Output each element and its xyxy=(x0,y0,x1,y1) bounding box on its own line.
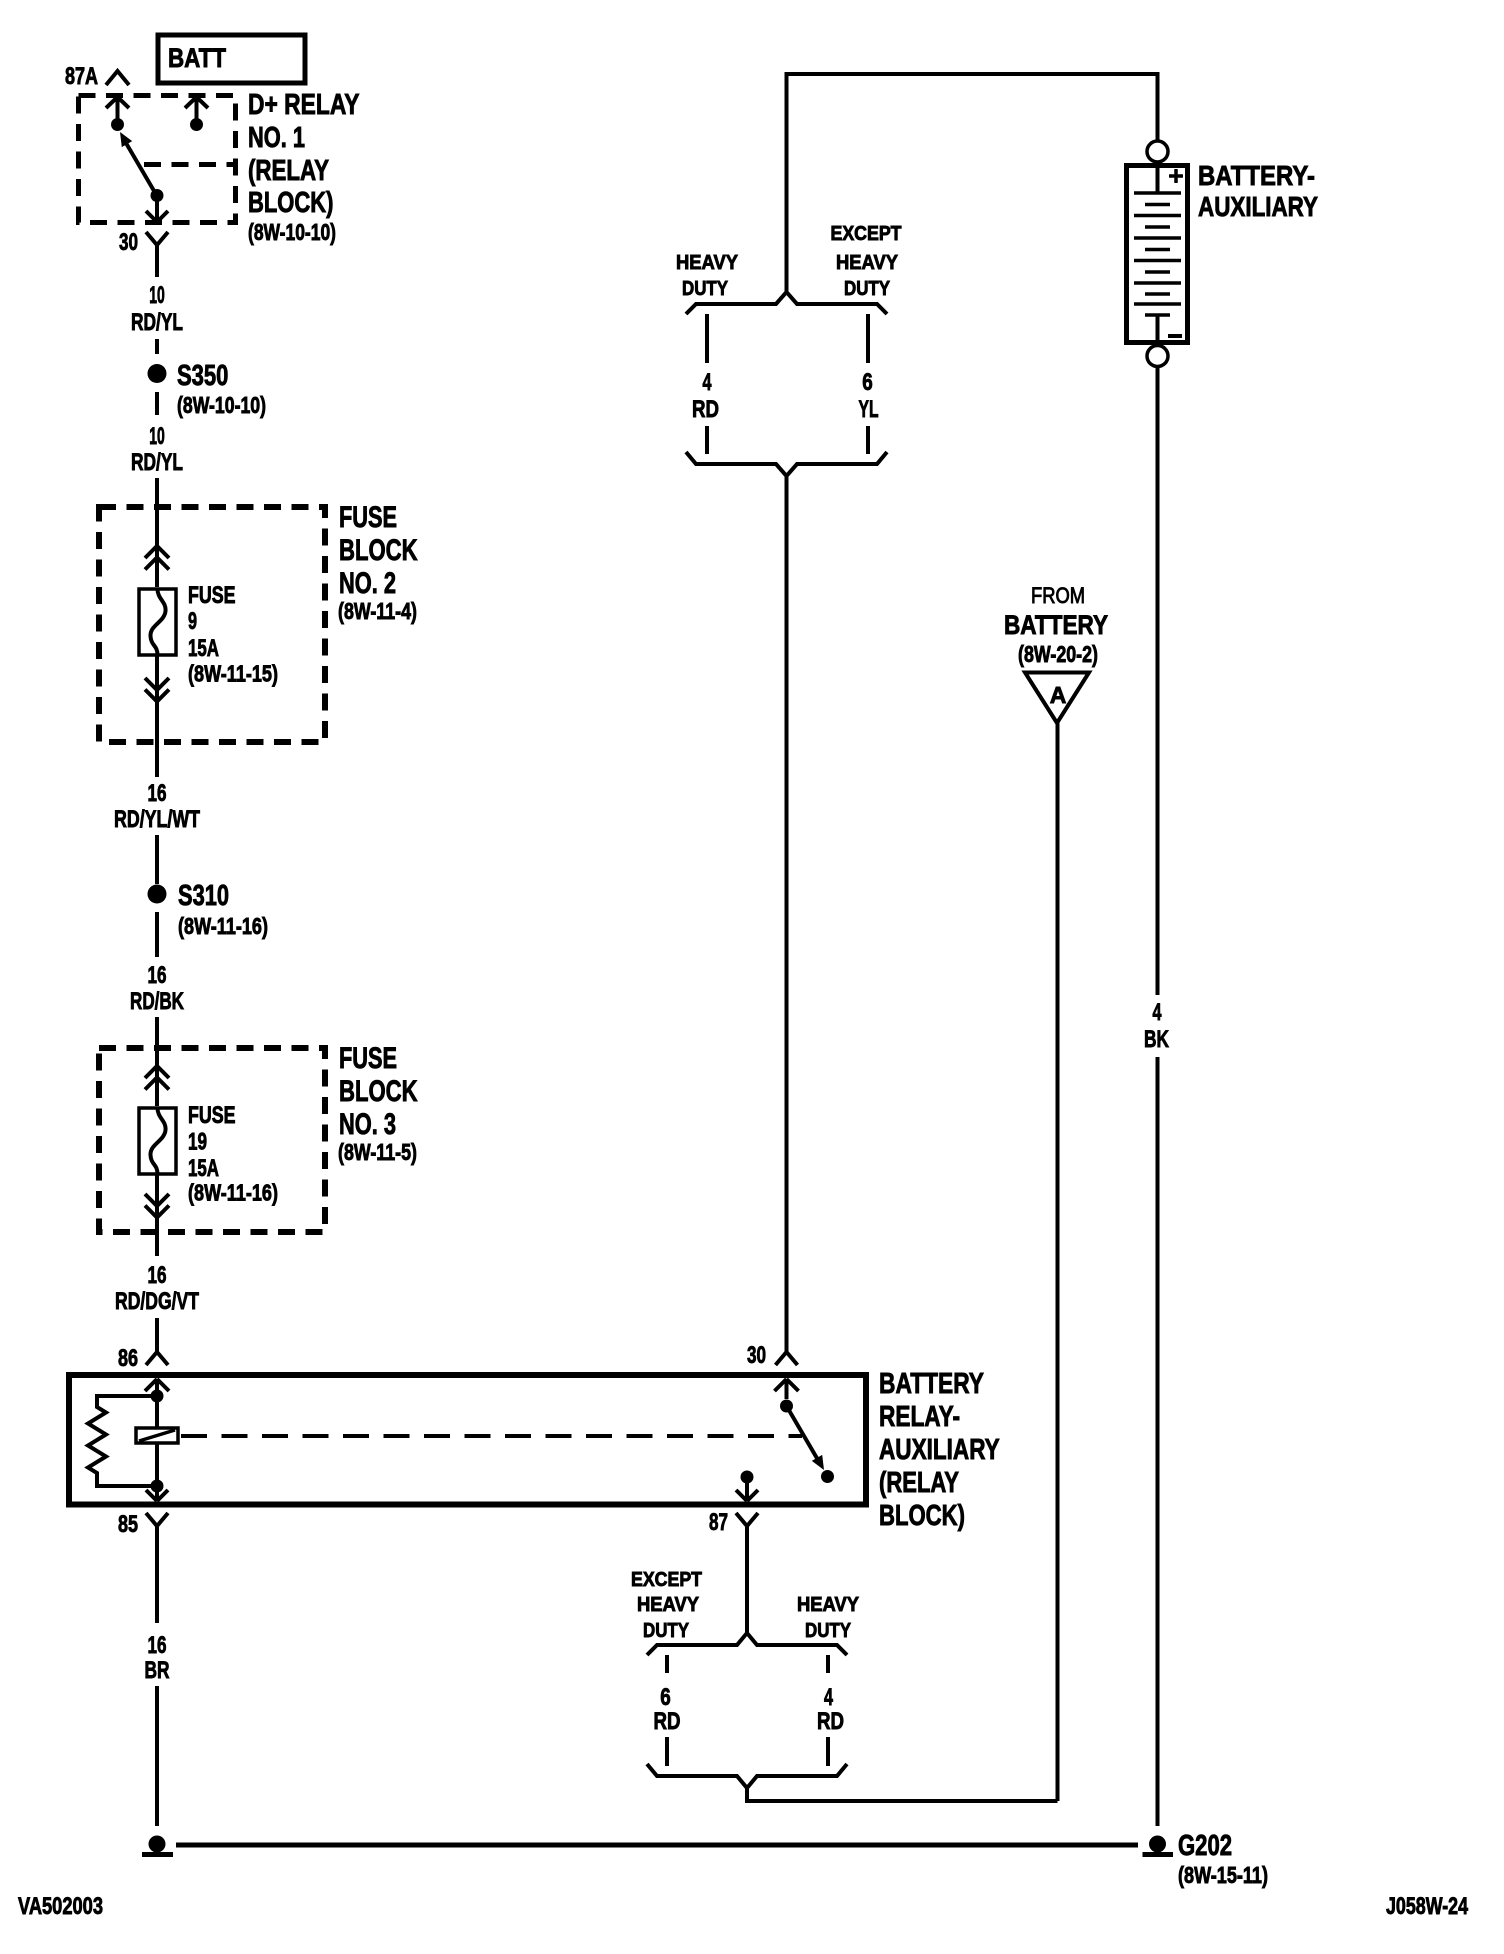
battery internal top lead xyxy=(1156,168,1160,193)
node: switch common contact dot xyxy=(780,1400,793,1413)
svg-text:(8W-11-4): (8W-11-4) xyxy=(338,598,417,624)
svg-text:(8W-11-5): (8W-11-5) xyxy=(338,1139,417,1165)
svg-text:(8W-11-16): (8W-11-16) xyxy=(178,913,268,939)
switch blade of battery relay (arrow) xyxy=(787,1406,825,1470)
svg-text:VA502003: VA502003 xyxy=(18,1893,103,1920)
svg-text:15A: 15A xyxy=(188,1155,219,1182)
fuse block no.3 labels xyxy=(338,1042,418,1165)
svg-text:16: 16 xyxy=(148,962,167,989)
node: coil bottom junction dot xyxy=(151,1480,164,1493)
wire to relay pin 86 xyxy=(155,1318,159,1352)
svg-text:HEAVY: HEAVY xyxy=(797,1594,860,1616)
pin 30 connector fork (battery relay) xyxy=(776,1352,798,1365)
pin 30 terminal arrow (exit) xyxy=(146,196,168,223)
pin (BATT) terminal arrow xyxy=(185,97,208,124)
svg-text:9: 9 xyxy=(188,608,197,635)
svg-text:DUTY: DUTY xyxy=(682,278,729,300)
node: coil top junction dot xyxy=(151,1390,164,1403)
svg-text:BLOCK: BLOCK xyxy=(339,1075,418,1108)
wire label 16 RD/DG/VT xyxy=(115,1262,199,1315)
svg-text:16: 16 xyxy=(148,780,167,807)
fuse F19 body xyxy=(139,1108,176,1174)
pin 87 terminal arrow (exit) xyxy=(736,1477,758,1501)
svg-text:(8W-11-15): (8W-11-15) xyxy=(188,661,278,687)
svg-text:RD/YL/WT: RD/YL/WT xyxy=(114,806,200,833)
svg-text:6: 6 xyxy=(862,369,873,396)
svg-text:4: 4 xyxy=(1153,999,1162,1026)
svg-text:87: 87 xyxy=(709,1509,728,1536)
svg-text:BATTERY: BATTERY xyxy=(879,1368,984,1400)
node: pin 87 contact dot xyxy=(741,1471,754,1484)
node S310 labels xyxy=(178,880,268,939)
relay aux labels xyxy=(879,1368,1000,1532)
node: BATT pin contact dot xyxy=(190,118,203,131)
svg-text:NO. 3: NO. 3 xyxy=(339,1108,396,1141)
svg-text:BR: BR xyxy=(145,1657,170,1684)
resistor (coil suppression) zigzag xyxy=(88,1396,157,1486)
label EXCEPT HEAVY DUTY (upper right branch) xyxy=(831,223,902,300)
fuse block no.2 dashed outline xyxy=(99,507,325,742)
svg-text:(8W-20-2): (8W-20-2) xyxy=(1018,641,1098,667)
wire 6 YL (except heavy duty) dashes xyxy=(866,314,870,454)
wire from fuse 9 down and out of block xyxy=(155,655,159,777)
wire: top feed from battery-auxiliary xyxy=(787,74,1158,292)
wire 4 RD (heavy duty) dashes xyxy=(826,1655,830,1766)
svg-text:10: 10 xyxy=(149,423,165,450)
wire BK continues to ground xyxy=(1156,1057,1160,1826)
wire from fuse 19 down and out of block xyxy=(155,1174,159,1256)
node: pin 87A contact dot xyxy=(111,118,124,131)
pin 30 connector fork xyxy=(146,232,168,277)
pin 87A connector fork xyxy=(106,71,129,85)
battery-auxiliary positive terminal circle xyxy=(1147,141,1168,162)
wire label 4 RD xyxy=(692,369,719,423)
wire dash to S350 xyxy=(155,339,159,354)
svg-text:YL: YL xyxy=(859,396,879,423)
brace merge (upper) xyxy=(686,452,887,476)
wire from pin 87 down to lower brace xyxy=(745,1558,749,1632)
battery internal bottom lead xyxy=(1156,315,1160,343)
relay BATTERY RELAY-AUXILIARY box xyxy=(69,1375,866,1505)
svg-text:D+ RELAY: D+ RELAY xyxy=(248,89,360,121)
ground G202 symbol xyxy=(1143,1836,1174,1855)
svg-text:FROM: FROM xyxy=(1031,583,1085,608)
svg-text:RD/BK: RD/BK xyxy=(130,988,184,1015)
wire 4 BK from battery negative xyxy=(1156,367,1160,996)
node: common contact dot of D+ relay xyxy=(151,189,164,202)
svg-text:86: 86 xyxy=(118,1345,138,1372)
wire below S310 xyxy=(155,912,159,957)
svg-text:FUSE: FUSE xyxy=(339,501,397,534)
svg-text:G202: G202 xyxy=(1178,1830,1232,1862)
relay block internal dashed divider xyxy=(144,162,236,167)
wire from lower merge to FROM BATTERY riser xyxy=(747,1788,1058,1801)
battery plus sign xyxy=(1169,169,1183,183)
svg-text:RD/YL: RD/YL xyxy=(131,449,183,476)
svg-text:16: 16 xyxy=(148,1262,167,1289)
off-page connector A triangle xyxy=(1025,673,1089,724)
svg-text:RD: RD xyxy=(654,1708,681,1735)
svg-text:RELAY-: RELAY- xyxy=(879,1401,960,1433)
svg-text:(8W-11-16): (8W-11-16) xyxy=(188,1180,278,1206)
svg-text:BLOCK: BLOCK xyxy=(339,534,418,567)
dashed mechanical link from coil to switch xyxy=(181,1434,802,1438)
wire 6 RD (except heavy duty) dashes xyxy=(665,1655,669,1766)
battery-auxiliary body box xyxy=(1127,166,1188,343)
svg-text:AUXILIARY: AUXILIARY xyxy=(879,1434,1000,1466)
svg-text:BLOCK): BLOCK) xyxy=(248,187,334,219)
svg-text:FUSE: FUSE xyxy=(188,582,236,609)
svg-text:S310: S310 xyxy=(178,880,229,912)
pin 85 terminal arrow (exit) xyxy=(146,1486,168,1501)
wire from connector A down to junction with lower merge xyxy=(1056,723,1060,1801)
fuse block no.3 exit double chevron xyxy=(145,1194,169,1218)
svg-text:(8W-15-11): (8W-15-11) xyxy=(1178,1862,1268,1888)
svg-text:S350: S350 xyxy=(177,360,228,392)
wire label 6 RD xyxy=(654,1684,681,1735)
fuse block no.2 exit double chevron xyxy=(145,678,169,702)
battery cell plates xyxy=(1134,193,1181,315)
svg-text:RD: RD xyxy=(817,1708,844,1735)
svg-text:HEAVY: HEAVY xyxy=(836,252,899,274)
svg-text:AUXILIARY: AUXILIARY xyxy=(1198,191,1318,222)
wire label 16 RD/BK xyxy=(130,962,184,1015)
wire 4 RD (heavy duty) dashes xyxy=(705,314,709,454)
switch blade of D+ relay (arrow to 87A) xyxy=(120,132,157,196)
svg-text:6: 6 xyxy=(660,1684,671,1711)
ground symbol (left, BR wire) xyxy=(142,1836,173,1855)
battery-auxiliary labels xyxy=(1198,160,1318,222)
svg-text:HEAVY: HEAVY xyxy=(637,1594,700,1616)
svg-text:DUTY: DUTY xyxy=(844,278,891,300)
node BATT (battery feed box) xyxy=(158,35,305,83)
battery minus sign xyxy=(1168,334,1182,338)
wire from merge down to relay pin 30 xyxy=(785,476,789,1352)
svg-text:NO. 2: NO. 2 xyxy=(339,567,396,600)
svg-text:J058W-24: J058W-24 xyxy=(1386,1893,1468,1920)
pin 87A terminal arrow xyxy=(106,97,129,124)
svg-text:87A: 87A xyxy=(65,63,98,90)
svg-text:16: 16 xyxy=(148,1632,167,1659)
coil element (rect with diagonal) on wire xyxy=(136,1396,178,1486)
node S350 splice dot xyxy=(148,364,167,383)
wire dash below S350 xyxy=(155,392,159,415)
pin 86 connector fork xyxy=(146,1352,168,1365)
wire label 16 BR xyxy=(145,1632,170,1684)
node S310 splice dot xyxy=(148,885,167,904)
brace split (lower) xyxy=(647,1633,847,1655)
fuse block no.2 labels xyxy=(338,501,418,624)
label HEAVY DUTY (upper left branch) xyxy=(676,252,739,300)
svg-text:(8W-10-10): (8W-10-10) xyxy=(177,392,266,418)
brace split (upper) xyxy=(686,292,887,314)
fuse F9 value labels xyxy=(188,582,278,687)
svg-text:BLOCK): BLOCK) xyxy=(879,1500,965,1532)
fuse F9 body xyxy=(139,589,176,655)
svg-text:A: A xyxy=(1050,682,1067,708)
wire label 16 RD/YL/WT xyxy=(114,780,200,833)
svg-text:FUSE: FUSE xyxy=(339,1042,397,1075)
svg-text:4: 4 xyxy=(824,1684,833,1711)
ground G202 labels xyxy=(1178,1830,1268,1888)
svg-text:HEAVY: HEAVY xyxy=(676,252,739,274)
svg-text:DUTY: DUTY xyxy=(643,1620,690,1642)
svg-text:RD/DG/VT: RD/DG/VT xyxy=(115,1288,199,1315)
wire label 10 RD/YL xyxy=(131,282,183,336)
svg-text:4: 4 xyxy=(703,369,712,396)
svg-text:(8W-10-10): (8W-10-10) xyxy=(248,219,336,245)
svg-text:30: 30 xyxy=(747,1342,766,1369)
pin 86 terminal arrow (entry) xyxy=(145,1379,169,1396)
svg-text:85: 85 xyxy=(118,1511,138,1538)
svg-text:10: 10 xyxy=(149,282,165,309)
svg-text:(RELAY: (RELAY xyxy=(248,155,329,187)
svg-text:RD: RD xyxy=(692,396,719,423)
label EXCEPT HEAVY DUTY (lower left branch) xyxy=(631,1569,702,1642)
wire label 10 RD/YL (second) xyxy=(131,423,183,476)
node: throw contact dot xyxy=(821,1470,834,1483)
pin 85 connector fork xyxy=(146,1513,168,1558)
fuse block no.2 entry double chevron xyxy=(145,546,169,570)
svg-text:19: 19 xyxy=(188,1129,207,1156)
svg-text:RD/YL: RD/YL xyxy=(131,309,183,336)
relay D+ RELAY NO.1 dashed outline (relay block) xyxy=(79,96,236,223)
wire into fuse block no.3 xyxy=(155,1017,159,1106)
node S350 labels xyxy=(177,360,266,418)
svg-text:BATTERY: BATTERY xyxy=(1004,610,1108,640)
wire label 6 YL xyxy=(859,369,879,423)
wire into fuse block no.2 xyxy=(155,478,159,587)
wire from BR label to ground xyxy=(155,1686,159,1826)
svg-text:BATTERY-: BATTERY- xyxy=(1198,160,1315,191)
fuse F19 value labels xyxy=(188,1102,278,1206)
fuse block no.3 dashed outline xyxy=(99,1048,325,1232)
label HEAVY DUTY (lower right branch) xyxy=(797,1594,860,1642)
svg-text:EXCEPT: EXCEPT xyxy=(831,223,902,245)
svg-text:FUSE: FUSE xyxy=(188,1102,236,1129)
pin 87 connector fork xyxy=(736,1513,758,1558)
label FROM BATTERY xyxy=(1004,583,1108,667)
svg-text:15A: 15A xyxy=(188,635,219,662)
svg-text:NO. 1: NO. 1 xyxy=(248,122,305,154)
ground bus wire xyxy=(176,1843,1138,1848)
svg-text:BATT: BATT xyxy=(168,43,226,73)
svg-text:EXCEPT: EXCEPT xyxy=(631,1569,702,1591)
pin 30 terminal arrow (entry) xyxy=(775,1379,799,1399)
relay D+ labels xyxy=(248,89,360,245)
wire label 4 BK xyxy=(1144,999,1169,1053)
wire to S310 xyxy=(155,835,159,884)
svg-text:(RELAY: (RELAY xyxy=(879,1467,959,1499)
fuse block no.3 entry double chevron xyxy=(145,1066,169,1090)
svg-text:DUTY: DUTY xyxy=(805,1620,852,1642)
brace merge (lower) xyxy=(647,1764,847,1788)
battery-auxiliary negative terminal circle xyxy=(1147,346,1168,367)
wire label 4 RD (lower right) xyxy=(817,1684,844,1735)
svg-text:BK: BK xyxy=(1144,1026,1169,1053)
svg-text:30: 30 xyxy=(119,229,138,256)
wire 16 BR down from pin 85 xyxy=(155,1558,159,1623)
